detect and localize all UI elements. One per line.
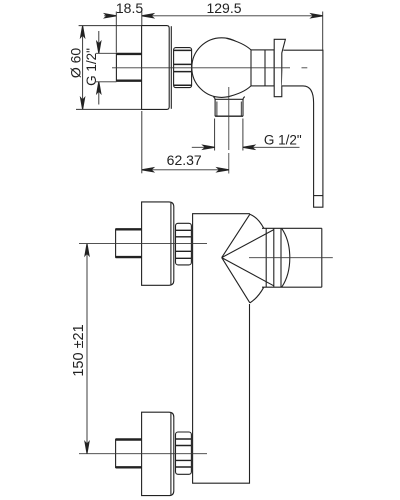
collar ring (top view) <box>251 50 274 86</box>
dimension O 60 <box>76 26 142 110</box>
upper hex nut (front view) <box>176 223 192 265</box>
cartridge cone (front view) <box>222 214 274 303</box>
svg-text:18.5: 18.5 <box>116 0 143 16</box>
svg-text:129.5: 129.5 <box>206 0 241 16</box>
handle grip (front view) <box>282 228 322 287</box>
wire: outlet centerline <box>228 87 230 174</box>
outlet stub G 1/2 (downward, top view) <box>213 97 244 117</box>
upper flange disc (front view) <box>142 202 174 285</box>
upper inlet pipe (front view) <box>116 229 142 258</box>
wire: upper inlet centerline <box>79 243 207 245</box>
sphere (valve body ball) <box>192 38 252 98</box>
svg-text:G 1/2": G 1/2" <box>84 48 99 86</box>
hex nut (top view) <box>174 48 192 88</box>
wire: handle centerline <box>249 257 333 259</box>
lever arm and paddle (top view) <box>282 50 323 207</box>
dimension 18.5 <box>104 12 142 53</box>
wall flange disc O60 (top view, side) <box>142 26 172 110</box>
lever stem (top view) <box>274 39 285 96</box>
lower hex nut (front view) <box>176 432 192 474</box>
dimension G 1/2 (bottom outlet) <box>192 119 300 151</box>
svg-text:Ø 60: Ø 60 <box>67 48 83 79</box>
body (front view) <box>193 214 250 484</box>
dimension G 1/2 (left) <box>96 31 116 105</box>
dimension 150 +-21 <box>86 244 88 454</box>
lower inlet pipe (front view) <box>116 439 142 468</box>
svg-text:150 ±21: 150 ±21 <box>71 324 87 376</box>
paddle end cap line <box>314 195 323 197</box>
dimension 129.5 <box>142 12 323 51</box>
inlet pipe G 1/2 (top view) <box>116 53 141 82</box>
wire: lower inlet centerline <box>79 453 207 455</box>
handle base ring (front view) <box>262 228 322 287</box>
collar cone (handle base on sphere) <box>227 38 252 97</box>
wire: axis centerline of top view <box>112 67 307 69</box>
svg-text:62.37: 62.37 <box>167 152 202 168</box>
dimension 62.37 <box>142 111 229 173</box>
lower flange disc (front view) <box>142 412 174 495</box>
svg-text:G 1/2": G 1/2" <box>264 132 302 147</box>
